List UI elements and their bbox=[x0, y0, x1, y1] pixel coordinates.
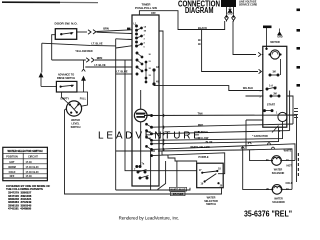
timer bottom contacts bbox=[134, 163, 149, 179]
vertical x289.6 to motor bbox=[289, 91, 291, 131]
cold water solenoid bbox=[271, 185, 282, 195]
wire lt blue y43-46 bbox=[42, 43, 116, 46]
motor box left edge terminal digits bbox=[260, 72, 262, 99]
svg-text:35-6376 "REL": 35-6376 "REL" bbox=[244, 210, 292, 219]
wire door switch left down bbox=[52, 35, 56, 60]
svg-text:EMPTY: EMPTY bbox=[60, 97, 69, 100]
wire y151 from x115 to staircase into selector box bbox=[116, 150, 155, 152]
long vertical x125 bbox=[125, 60, 197, 171]
svg-text:OFF: OFF bbox=[10, 175, 15, 178]
svg-text:FULL: FULL bbox=[80, 97, 87, 100]
water selector switch box bbox=[197, 163, 224, 188]
right edge tiny vertical text marks bbox=[298, 153, 299, 176]
svg-text:DOOR SW. N.O.: DOOR SW. N.O. bbox=[54, 22, 77, 26]
wire y190 white-blue bbox=[116, 188, 190, 190]
service cord black box bbox=[221, 0, 236, 7]
motor circle bbox=[268, 50, 281, 59]
svg-text:PUSH-PULL SW: PUSH-PULL SW bbox=[135, 6, 157, 10]
svg-text:OFF: OFF bbox=[151, 12, 156, 15]
svg-text:WHITE: WHITE bbox=[284, 150, 292, 153]
timer left terminals group2 bbox=[136, 52, 147, 83]
top scan streak bbox=[2, 1, 60, 3]
start winding circle bbox=[276, 112, 287, 133]
vertical x150.6 y151-190 bbox=[150, 151, 152, 190]
tick marks beside vertical bbox=[198, 40, 201, 45]
svg-text:WHITE-YELLOW: WHITE-YELLOW bbox=[190, 146, 210, 149]
svg-text:17-18 19-20: 17-18 19-20 bbox=[26, 171, 40, 174]
hop wiggles on crossings bbox=[241, 142, 274, 149]
svg-text:BLACK: BLACK bbox=[198, 26, 207, 30]
wire BLUE y141.3 to box bottom bbox=[152, 127, 279, 144]
svg-text:TAN: TAN bbox=[198, 112, 203, 115]
timer left terminals group1 bbox=[127, 23, 143, 48]
svg-text:GRD: GRD bbox=[277, 36, 283, 39]
wire RED y124.5 bbox=[152, 124, 294, 127]
svg-text:17-18: 17-18 bbox=[26, 161, 33, 164]
svg-text:PURPLE: PURPLE bbox=[198, 131, 208, 134]
motor contacts 2M bbox=[266, 85, 280, 98]
orange label box bbox=[171, 192, 186, 196]
vertical cold feed x242.7 bbox=[243, 146, 273, 189]
svg-text:WHITE-BLUE: WHITE-BLUE bbox=[170, 188, 185, 191]
svg-text:YELLOW: YELLOW bbox=[198, 137, 209, 140]
svg-text:BRN: BRN bbox=[103, 27, 109, 31]
svg-text:LT. BLUE: LT. BLUE bbox=[91, 42, 102, 46]
water selector table bbox=[3, 147, 48, 180]
svg-text:COLD: COLD bbox=[286, 182, 293, 185]
svg-text:4741181 4348995: 4741181 4348995 bbox=[8, 207, 32, 211]
vertical x176.9 bbox=[176, 161, 178, 187]
wire water level switch left down to bottom orange run bbox=[65, 109, 222, 195]
wire brn y60 bbox=[52, 59, 86, 61]
wires rinse box to water level switch bbox=[62, 92, 88, 106]
svg-text:START: START bbox=[267, 104, 276, 107]
svg-text:DIAGRAM: DIAGRAM bbox=[185, 6, 214, 15]
wire plug to motor run bbox=[202, 21, 264, 72]
timer box bbox=[132, 15, 159, 186]
hot feed x249.6 bbox=[250, 150, 273, 161]
svg-text:HOT: HOT bbox=[9, 161, 15, 164]
plug prongs Y bbox=[225, 18, 236, 22]
chevrons motor feed bbox=[258, 52, 261, 73]
wire motor right to x293 down bbox=[246, 96, 294, 124]
svg-text:SOLENOID: SOLENOID bbox=[272, 172, 285, 175]
long vertical lt blue x115.7 bbox=[116, 39, 197, 190]
svg-text:MOTOR: MOTOR bbox=[270, 41, 279, 44]
vertical x165.6 bbox=[158, 161, 166, 190]
service cord wires and grd arrow bbox=[227, 6, 234, 14]
svg-text:SWITCH: SWITCH bbox=[206, 203, 216, 206]
svg-text:WARM: WARM bbox=[8, 166, 16, 169]
plug arrows down bbox=[225, 14, 235, 17]
svg-text:BLUE: BLUE bbox=[206, 141, 213, 144]
wire PURPLE y154 to selector bbox=[152, 153, 225, 174]
svg-text:BRN: BRN bbox=[97, 56, 103, 60]
svg-text:Rendered by LeadVenture, Inc.: Rendered by LeadVenture, Inc. bbox=[119, 216, 180, 221]
svg-text:LT. BLUE: LT. BLUE bbox=[94, 63, 105, 67]
water level switch (pressure switch) bbox=[66, 101, 81, 116]
timer motor circle bbox=[134, 90, 151, 166]
svg-text:COLD: COLD bbox=[9, 171, 16, 174]
wire lt blue y67 bbox=[85, 66, 131, 68]
motor box bbox=[263, 46, 287, 127]
motor contacts 1M bbox=[269, 59, 281, 76]
svg-text:1-A: 1-A bbox=[269, 85, 273, 88]
white-blue label box bbox=[170, 187, 187, 191]
wire timer to service plug (black) bbox=[139, 11, 224, 30]
svg-text:17-18: 17-18 bbox=[26, 175, 33, 178]
door switch DOOR SW. N.O. bbox=[54, 22, 77, 40]
wire PURPLE y131.4 bbox=[152, 131, 290, 134]
wire lt blue y74 bbox=[116, 73, 132, 75]
timer inner node 43 40 bbox=[153, 66, 160, 85]
svg-text:POSITION: POSITION bbox=[6, 156, 18, 159]
grd arrow at motor bbox=[278, 29, 282, 35]
long vertical x161.5 bbox=[159, 31, 164, 151]
wire door switch right to timer bbox=[77, 31, 87, 33]
svg-text:2M: 2M bbox=[273, 92, 276, 95]
motor ground strap bbox=[263, 26, 272, 51]
svg-text:RINSE SWITCH: RINSE SWITCH bbox=[57, 77, 75, 80]
wire WHITE-YELLOW y148 sloping bbox=[152, 144, 296, 161]
hot water solenoid bbox=[271, 156, 282, 166]
svg-text:WATER SELECTOR SWITCH: WATER SELECTOR SWITCH bbox=[8, 149, 43, 153]
wire 40 to motor box (wh-blk) bbox=[154, 86, 263, 91]
wire TAN y115 bbox=[144, 115, 297, 182]
disconnect chevrons on door wire bbox=[86, 30, 96, 63]
svg-text:WH-BLK: WH-BLK bbox=[243, 87, 253, 90]
svg-text:1M: 1M bbox=[272, 71, 275, 74]
right edge tiny text marks bbox=[294, 108, 298, 118]
svg-text:17-18 19-20: 17-18 19-20 bbox=[26, 166, 40, 169]
svg-text:GRD: GRD bbox=[227, 13, 233, 16]
timer terminal digits bbox=[144, 26, 152, 78]
svg-text:ORANGE: ORANGE bbox=[173, 193, 184, 196]
chevrons on brn y60 wire bbox=[86, 58, 89, 62]
right edge dashes bbox=[297, 9, 301, 87]
svg-text:PURPLE: PURPLE bbox=[198, 156, 208, 159]
grd arrow bbox=[228, 7, 232, 13]
wire white return y149 bbox=[158, 149, 292, 190]
svg-text:SOLENOID: SOLENOID bbox=[272, 201, 285, 204]
svg-text:HOT: HOT bbox=[287, 165, 293, 168]
svg-text:YELLOW-RED: YELLOW-RED bbox=[75, 49, 93, 53]
advance to rinse arrows bbox=[39, 73, 85, 80]
wire YELLOW y138 to start circle bbox=[152, 122, 283, 141]
svg-text:SERVICE CORD: SERVICE CORD bbox=[239, 3, 257, 6]
svg-text:LT. BLUE: LT. BLUE bbox=[116, 70, 127, 74]
wire into start row bbox=[246, 120, 263, 149]
svg-text:CIRCUIT: CIRCUIT bbox=[28, 156, 38, 159]
svg-text:* CAPACITOR: * CAPACITOR bbox=[252, 135, 268, 138]
svg-text:RED: RED bbox=[198, 124, 203, 127]
right side horizontal wires from timer bbox=[144, 91, 297, 190]
timer right terminal column bbox=[146, 114, 153, 156]
svg-text:SWITCH: SWITCH bbox=[71, 126, 81, 129]
wire hot right bbox=[281, 160, 295, 162]
wire cold right bbox=[281, 188, 292, 190]
